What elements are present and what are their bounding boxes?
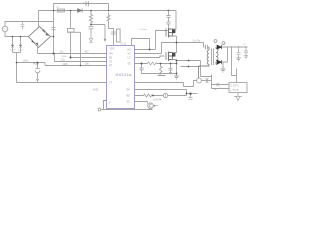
supply chain x108	[107, 13, 110, 29]
svg-text:RD: RD	[127, 96, 131, 98]
box aux	[117, 29, 121, 42]
capacitor CX across mains	[21, 22, 25, 30]
capacitor C10	[189, 93, 191, 95]
wire y101	[135, 102, 148, 104]
resistor R3	[148, 62, 158, 65]
svg-text:22u: 22u	[61, 58, 66, 62]
wire source2	[173, 60, 177, 76]
ground Q2 source	[174, 76, 179, 79]
node DC+ x53	[53, 4, 55, 54]
junction dots	[12, 10, 170, 107]
wire y63	[135, 63, 177, 65]
diode circle D3	[163, 93, 167, 97]
wire y88	[135, 90, 187, 96]
svg-text:SD: SD	[128, 64, 132, 66]
wire pin y65	[45, 65, 107, 67]
svg-text:Cp 33n: Cp 33n	[193, 40, 201, 43]
resistor R1	[35, 63, 40, 78]
transformer T1	[199, 47, 219, 78]
zener D2	[89, 39, 93, 43]
svg-text:100n: 100n	[23, 59, 29, 63]
wire corner to y65	[44, 63, 46, 66]
capacitor C1	[12, 37, 14, 53]
wire drain2	[173, 43, 177, 53]
wire drain1	[173, 11, 177, 30]
MOSFET Q2	[166, 52, 175, 62]
svg-text:HV121a: HV121a	[116, 72, 133, 77]
wire cap join	[13, 52, 21, 54]
wire bridge right	[51, 36, 54, 38]
svg-text:FB: FB	[109, 58, 112, 60]
terminal circle	[197, 78, 202, 83]
svg-text:Cf 1n: Cf 1n	[121, 43, 127, 46]
svg-text:4k99: 4k99	[63, 63, 69, 66]
svg-text:SS: SS	[127, 102, 131, 104]
svg-text:4k7: 4k7	[85, 50, 90, 54]
svg-text:HO: HO	[128, 50, 132, 52]
capacitor C12	[237, 47, 241, 58]
svg-text:VS: VS	[128, 54, 132, 56]
wire AC top	[5, 22, 54, 27]
transistor Q3	[148, 103, 154, 109]
svg-text:R10: R10	[34, 62, 39, 66]
wire x80	[80, 32, 82, 65]
diode D4	[217, 45, 222, 49]
wire bridge top to bus	[38, 11, 40, 28]
wire gate1	[135, 31, 168, 50]
wire x231	[232, 47, 237, 83]
wire y93	[187, 93, 198, 95]
capacitor C13	[244, 47, 248, 56]
svg-text:1N..: 1N..	[60, 50, 65, 54]
IC U1 HV121a	[107, 46, 135, 109]
wire source1	[173, 36, 177, 43]
wire bridge bottom	[37, 47, 39, 53]
svg-text:10k: 10k	[85, 62, 90, 66]
wire pin y57	[71, 57, 107, 59]
capacitor C11	[206, 45, 208, 50]
junction dots right	[141, 42, 247, 97]
node x70	[70, 11, 72, 29]
capacitor C8	[140, 64, 177, 74]
svg-text:CT: CT	[109, 83, 113, 85]
capacitor C4	[86, 1, 88, 6]
IC labels	[109, 49, 132, 105]
wire AC bottom	[5, 32, 29, 37]
wire pin8 stub	[104, 101, 107, 110]
wire top aux line	[54, 4, 109, 11]
svg-text:100k: 100k	[62, 56, 68, 58]
ground bus bottom	[102, 109, 153, 111]
arrow into pin	[91, 25, 105, 40]
chassis ground	[234, 93, 242, 101]
lamp connector box	[229, 83, 247, 93]
wire mid y53	[135, 43, 177, 54]
wire down to bottom bus	[16, 53, 18, 83]
wire mid out	[177, 42, 204, 44]
capacitor C14	[217, 83, 219, 87]
capacitor C6	[89, 27, 94, 39]
svg-text:VIN: VIN	[109, 54, 113, 56]
svg-text:EN: EN	[127, 90, 131, 92]
svg-text:Lamp: Lamp	[231, 88, 240, 92]
wires into box	[212, 85, 230, 89]
wire gate2	[135, 56, 165, 58]
wire top bus	[39, 10, 177, 12]
resistor R5	[135, 94, 164, 97]
capacitor C5	[52, 27, 56, 29]
wire bootstrap VB top pin	[132, 39, 150, 50]
fuse F1	[58, 9, 65, 12]
AC source V1	[2, 26, 8, 32]
phase dot circles	[214, 40, 217, 43]
MOSFET Q1	[166, 28, 175, 38]
misc text labels	[23, 7, 247, 101]
wire x222 gnd	[222, 62, 224, 69]
capacitor C15 snubber	[167, 11, 171, 28]
bridge rectifier BR1	[29, 27, 51, 48]
svg-text:1n4148: 1n4148	[153, 98, 162, 102]
capacitor C7	[111, 32, 116, 34]
diode D5	[217, 60, 222, 64]
svg-text:+: +	[83, 1, 85, 5]
capacitor C2	[20, 37, 22, 53]
svg-text:GND: GND	[93, 88, 99, 92]
wire pin VIN y53	[38, 53, 107, 55]
sense lines	[177, 61, 212, 89]
resistor R2	[89, 11, 92, 26]
svg-text:RT: RT	[109, 66, 113, 68]
wire bottom bus left	[17, 82, 107, 84]
svg-text:VDD: VDD	[110, 49, 115, 51]
svg-text:Cb 10n: Cb 10n	[140, 29, 148, 31]
capacitor C9	[169, 64, 173, 74]
primary coupling	[204, 43, 205, 48]
wire feedback bus y82	[135, 81, 197, 87]
diode D1	[78, 8, 83, 12]
svg-text:CS: CS	[109, 62, 113, 64]
wire y62 left	[17, 62, 46, 64]
component box jumper	[68, 29, 75, 33]
svg-text:8: 8	[109, 103, 111, 105]
connector J1	[206, 78, 209, 83]
svg-text:CCFL: CCFL	[231, 84, 240, 88]
wire pin y61	[55, 54, 107, 62]
svg-text:LO: LO	[128, 58, 131, 60]
svg-text:+V: +V	[243, 44, 246, 46]
resistor R4 vertical	[158, 64, 166, 76]
